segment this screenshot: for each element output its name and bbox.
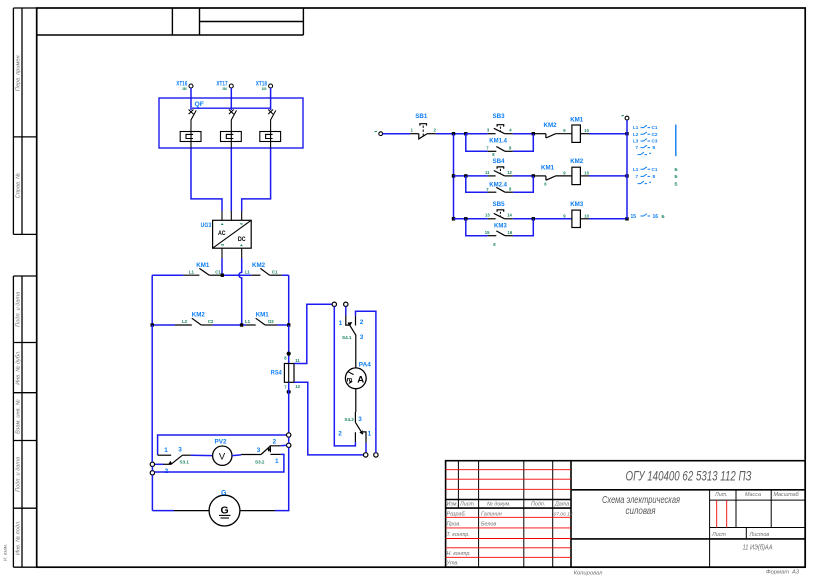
UG3 pin stubs top	[222, 211, 242, 220]
wire power row2	[152, 324, 289, 326]
top header boxes	[37, 8, 304, 35]
svg-text:S4.1: S4.1	[342, 335, 352, 340]
node right bus row3	[625, 217, 628, 220]
svg-text:16: 16	[508, 230, 513, 235]
svg-text:G: G	[221, 490, 227, 497]
wire left bus vertical	[453, 134, 455, 219]
contactor coil KM2	[572, 167, 581, 184]
svg-text:7: 7	[636, 174, 639, 179]
svg-text:Галинин: Галинин	[481, 512, 502, 518]
svg-text:380: 380	[222, 87, 227, 91]
svg-text:RS4: RS4	[271, 370, 282, 377]
svg-text:L1: L1	[245, 319, 251, 324]
svg-text:Б: Б	[675, 181, 678, 186]
switch S3.2	[241, 446, 281, 455]
svg-text:Взам. инв. №: Взам. инв. №	[16, 399, 22, 434]
svg-text:Подп.: Подп.	[531, 502, 545, 508]
svg-text:A: A	[357, 374, 364, 385]
svg-text:L1: L1	[633, 167, 639, 172]
svg-text:L2: L2	[633, 132, 639, 137]
svg-text:KM2: KM2	[544, 122, 558, 129]
terminal XT17	[216, 81, 233, 92]
left margin stamp texts	[3, 54, 22, 561]
wire left rail through plugs	[151, 325, 153, 462]
svg-text:KM2: KM2	[252, 262, 266, 269]
svg-text:SB4: SB4	[493, 158, 506, 165]
svg-text:KM2: KM2	[192, 312, 206, 319]
svg-text:L3: L3	[633, 139, 639, 144]
title block texts	[446, 492, 800, 577]
svg-text:DC: DC	[238, 236, 246, 243]
node left bus row2	[452, 174, 455, 177]
wire branch KM1.4 loop	[466, 134, 534, 152]
svg-text:3: 3	[257, 447, 261, 454]
wire UG3 left DC pin down to node	[221, 258, 223, 275]
svg-text:L1: L1	[189, 269, 195, 274]
svg-text:1: 1	[368, 430, 372, 437]
node branch row3	[464, 217, 467, 220]
svg-text:3: 3	[178, 447, 182, 454]
svg-text:Б: Б	[662, 214, 665, 219]
svg-text:12: 12	[295, 384, 300, 389]
svg-text:SB1: SB1	[415, 113, 428, 120]
svg-text:Н. контр.: Н. контр.	[447, 551, 471, 557]
coil KM3 right pin	[580, 218, 589, 220]
svg-text:14: 14	[507, 213, 512, 218]
svg-text:10: 10	[584, 128, 589, 133]
svg-text:16: 16	[653, 214, 659, 220]
svg-text:KM2: KM2	[570, 158, 584, 165]
svg-text:Инв. № дубл.: Инв. № дубл.	[16, 350, 22, 384]
svg-text:силовая: силовая	[626, 506, 657, 517]
wire left rail to generator	[152, 510, 174, 512]
contactor coil KM1	[572, 125, 581, 142]
svg-text:2: 2	[273, 439, 277, 446]
wire voltmeter to S3.2	[232, 454, 241, 457]
svg-text:KM1: KM1	[256, 312, 270, 319]
svg-text:C1: C1	[272, 269, 278, 274]
generator G	[209, 490, 240, 526]
coil KM2 right pin	[580, 175, 589, 177]
node below RS4	[287, 390, 291, 394]
wire terminal to SB1	[383, 133, 411, 135]
svg-text:А3: А3	[791, 570, 800, 576]
svg-text:3: 3	[360, 334, 364, 341]
svg-text:S4.2: S4.2	[344, 417, 354, 422]
svg-text:№ докум.: № докум.	[487, 502, 511, 508]
left margin stamp columns	[13, 8, 36, 567]
wire RS4 bottom tap to ammeter plug	[294, 382, 364, 455]
svg-text:AC: AC	[218, 230, 226, 237]
wire RS4 top tap to ammeter plug	[294, 304, 332, 363]
svg-text:12: 12	[507, 170, 512, 175]
svg-text:Лист: Лист	[459, 502, 474, 508]
wire ammeter to S4.2	[355, 389, 357, 412]
svg-text:C2: C2	[652, 132, 658, 137]
terminal XT16	[176, 81, 193, 92]
svg-text:Б: Б	[675, 167, 678, 172]
break contact KM2 row1	[535, 134, 572, 138]
svg-text:15: 15	[485, 230, 490, 235]
plug pair XS bottom of ammeter branch	[364, 453, 368, 457]
wire row1 to SB3	[466, 133, 488, 135]
svg-text:1: 1	[275, 458, 279, 465]
plug pair on left rail	[150, 462, 154, 466]
svg-text:Лист: Лист	[711, 532, 726, 538]
svg-text:C1: C1	[652, 125, 658, 130]
svg-text:KM1: KM1	[196, 262, 210, 269]
wire top-right plug down to S4.1 contact 1	[345, 307, 347, 316]
svg-text:07.06.14: 07.06.14	[554, 512, 573, 518]
svg-text:L1: L1	[633, 125, 639, 130]
polarity tick left	[375, 130, 378, 133]
svg-text:Справ. №: Справ. №	[16, 173, 22, 198]
aux contact KM1.4	[488, 147, 513, 152]
svg-text:3: 3	[358, 416, 362, 423]
plug pair XS top of ammeter branch	[332, 302, 336, 306]
wire QF pole3 to UG3	[242, 148, 271, 211]
svg-text:G: G	[221, 504, 229, 516]
wire SB4 to merge node	[513, 175, 534, 177]
wire top-left plug down to S4.2 contact 2	[334, 307, 355, 446]
wire XT16 to QF pole1	[190, 88, 192, 110]
svg-text:11 ИЭ(б)АА: 11 ИЭ(б)АА	[743, 543, 773, 552]
svg-text:11: 11	[295, 358, 300, 363]
svg-text:Подп. и дата: Подп. и дата	[16, 457, 22, 492]
node merge row3	[532, 217, 535, 220]
svg-text:Белов: Белов	[481, 521, 496, 527]
generator right pin	[240, 510, 275, 512]
circuit breaker QF outline box	[159, 98, 303, 148]
QF pole 2	[221, 110, 242, 150]
wire voltmeter loop top	[158, 435, 287, 455]
plug pair on right rail (voltmeter)	[287, 433, 291, 437]
svg-text:PV2: PV2	[215, 438, 228, 445]
node left rail row2	[151, 323, 154, 326]
svg-text:10: 10	[584, 170, 589, 175]
wire S3.2 contact1 to bottom rail	[155, 454, 284, 472]
svg-text:V: V	[219, 451, 226, 462]
switch S4.1	[346, 315, 356, 368]
svg-text:Копировал: Копировал	[574, 571, 604, 577]
svg-text:KM1: KM1	[570, 117, 584, 124]
terminal XT18	[256, 81, 273, 92]
contact KM1 row2	[246, 318, 277, 325]
break contact KM1 row2	[535, 176, 572, 180]
wire S3.2 contact2 to right plug	[281, 444, 287, 447]
svg-text:S3.1: S3.1	[180, 459, 190, 464]
node branch row1	[464, 132, 467, 135]
svg-text:C2: C2	[208, 319, 214, 324]
node: UG3 left DC junction	[221, 274, 224, 277]
pushbutton SB5	[488, 210, 513, 219]
svg-text:S3.2: S3.2	[255, 459, 265, 464]
svg-text:1: 1	[164, 447, 168, 454]
QF pole 3	[260, 110, 281, 150]
QF linkage line	[192, 107, 271, 109]
svg-text:2: 2	[360, 319, 364, 326]
node right bus row1	[625, 132, 628, 135]
svg-text:KM1: KM1	[541, 164, 555, 171]
wire S4.2 contact1 to bottom-left plug	[365, 443, 367, 453]
svg-text:Дата: Дата	[554, 502, 569, 508]
shunt resistor RS4	[271, 356, 301, 390]
ammeter PA4	[345, 362, 371, 389]
wire coil KM2 to right bus	[589, 175, 627, 177]
svg-text:2: 2	[338, 430, 342, 437]
coil KM1 right pin	[580, 133, 589, 135]
svg-text:D2: D2	[268, 319, 274, 324]
wire right rail row2 to RS4	[288, 325, 290, 364]
node right rail row2	[287, 323, 290, 326]
svg-text:L1: L1	[245, 269, 251, 274]
svg-text:Т. контр.: Т. контр.	[447, 532, 470, 538]
svg-text:KM2.4: KM2.4	[489, 182, 507, 188]
node above RS4	[287, 352, 291, 356]
svg-text:UG3: UG3	[201, 222, 212, 229]
contact mirror KM2	[633, 167, 658, 179]
contact KM1 row1	[183, 268, 220, 275]
aux contact KM2.4	[488, 187, 513, 192]
aux contact KM3	[488, 231, 513, 236]
svg-text:Схема электрическая: Схема электрическая	[602, 495, 680, 506]
wire generator to right rail	[275, 509, 289, 512]
voltmeter PV2	[213, 438, 232, 465]
svg-text:L2: L2	[182, 319, 188, 324]
svg-text:KM3: KM3	[570, 201, 584, 208]
svg-text:15: 15	[631, 214, 637, 220]
contactor coil KM3	[572, 210, 581, 227]
wire right rail RS4 down to plug pair	[288, 382, 290, 433]
wire right bus vertical	[626, 120, 628, 219]
svg-text:Подп. и дата: Подп. и дата	[16, 292, 22, 327]
svg-text:Пров.: Пров.	[447, 521, 461, 527]
wire right rail through plugs	[288, 437, 290, 443]
control supply terminal right	[625, 116, 629, 120]
svg-text:Утв.: Утв.	[446, 561, 459, 567]
UG3 pin stubs bottom	[222, 248, 242, 258]
svg-text:8: 8	[653, 145, 656, 150]
contact mirror KM1	[633, 125, 658, 150]
QF pole 1	[180, 110, 201, 150]
switch S4.2	[355, 412, 366, 443]
wire power row1	[152, 274, 289, 276]
svg-text:Перв. примен.: Перв. примен.	[16, 54, 22, 91]
control supply terminal left	[379, 132, 383, 136]
wire S3.1 contact2 to left plug	[155, 463, 164, 465]
node center row2	[240, 323, 243, 326]
svg-text:Формат: Формат	[766, 570, 789, 576]
wire SB3 to merge node	[513, 133, 534, 135]
svg-text:Разраб.: Разраб.	[447, 512, 467, 518]
svg-text:PA4: PA4	[359, 362, 371, 369]
svg-text:380: 380	[182, 87, 187, 91]
svg-text:Листов: Листов	[749, 532, 770, 538]
wire row2 to SB4	[454, 175, 488, 177]
wire QF pole1 to UG3	[191, 148, 222, 211]
wire SB5 to merge node	[513, 218, 534, 220]
svg-text:SB5: SB5	[493, 201, 506, 208]
svg-text:C1: C1	[652, 167, 658, 172]
svg-text:Изм.: Изм.	[447, 502, 459, 508]
wire right loop: S4.1 contact2 to bottom-right plug	[356, 311, 376, 453]
polarity tick right	[621, 114, 624, 117]
svg-text:Масштаб: Масштаб	[774, 492, 800, 498]
svg-text:KM1.4: KM1.4	[489, 138, 507, 144]
wire SB1 to left bus	[436, 133, 466, 135]
svg-text:QF: QF	[195, 101, 204, 108]
svg-text:7: 7	[636, 145, 639, 150]
svg-text:1: 1	[339, 320, 343, 327]
svg-text:И. взам.: И. взам.	[3, 544, 8, 561]
wire coil KM3 to right bus	[589, 218, 627, 220]
title block red field lines	[446, 470, 727, 558]
generator left pin	[174, 510, 209, 512]
contact KM2 row1	[251, 268, 282, 275]
converter U=G3 AC/DC	[201, 220, 252, 248]
switch S3.1	[158, 455, 191, 464]
svg-text:C3: C3	[652, 139, 658, 144]
wire coil KM1 to right bus	[589, 133, 627, 135]
node branch row2	[464, 174, 467, 177]
svg-text:Инв. № подл.: Инв. № подл.	[16, 520, 22, 555]
node merge row2	[532, 174, 535, 177]
node right bus row2	[625, 174, 628, 177]
wire left rail row1 to row2	[151, 275, 153, 325]
svg-text:C1: C1	[215, 269, 221, 274]
svg-text:Б: Б	[675, 174, 678, 179]
node merge row1	[532, 132, 535, 135]
title block grid	[446, 461, 806, 568]
wire branch KM3 loop	[466, 219, 534, 236]
contact mirror KM3	[631, 214, 659, 220]
pushbutton SB3	[488, 125, 513, 134]
wire XT17 to QF pole2	[230, 88, 232, 110]
pushbutton SB1	[410, 124, 436, 139]
svg-text:Лит.: Лит.	[714, 492, 728, 498]
wire row3 merge to coil KM3	[535, 218, 572, 220]
svg-text:8: 8	[653, 174, 656, 179]
svg-text:KM3: KM3	[494, 224, 507, 230]
svg-text:Масса: Масса	[745, 492, 761, 498]
contact KM2 row2	[175, 318, 213, 325]
svg-text:13: 13	[485, 213, 490, 218]
svg-text:380: 380	[262, 87, 267, 91]
svg-text:11: 11	[485, 170, 490, 175]
pushbutton SB4	[488, 167, 513, 176]
wire XT18 to QF pole3	[270, 88, 272, 110]
svg-text:10: 10	[584, 213, 589, 218]
svg-text:SB3: SB3	[493, 113, 506, 120]
wire branch KM2.4 loop	[466, 176, 534, 192]
node left bus row3	[452, 217, 455, 220]
node left bus row1	[452, 132, 455, 135]
wire S3.1 pole to voltmeter	[191, 454, 213, 456]
wire QF pole2 to UG3	[230, 148, 232, 211]
wire row3 to SB5	[454, 218, 488, 220]
wire right rail row1 to row2	[288, 275, 290, 325]
svg-text:ОГУ 140400 62 5313 112 ПЗ: ОГУ 140400 62 5313 112 ПЗ	[626, 468, 752, 484]
wire UG3 right DC pin down with hop over row1	[239, 258, 242, 325]
